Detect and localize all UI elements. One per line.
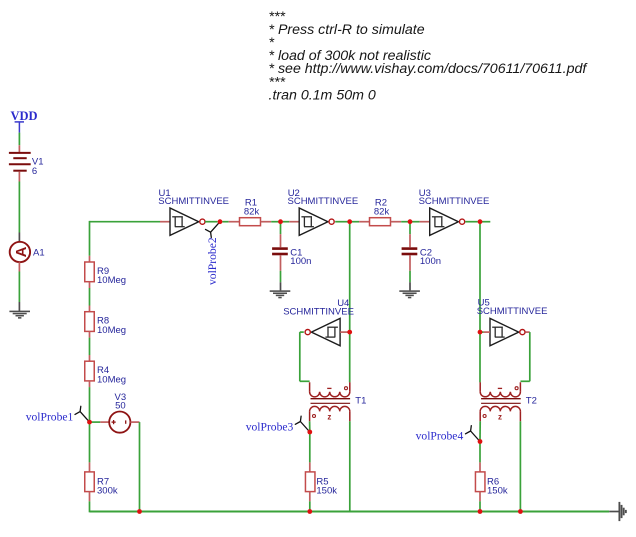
- svg-text:VDD: VDD: [11, 109, 38, 123]
- svg-text:300k: 300k: [97, 486, 118, 497]
- svg-text:150k: 150k: [487, 486, 508, 497]
- svg-text:z: z: [498, 412, 502, 421]
- svg-text:10Meg: 10Meg: [97, 325, 126, 336]
- capacitor C1 value 100n: [272, 247, 288, 250]
- resistor R2 value 82k: [370, 218, 391, 226]
- wire: [480, 331, 484, 333]
- ground: [618, 502, 620, 521]
- node n2 junction: [347, 219, 352, 224]
- node n3 junction: [478, 219, 483, 224]
- wire: [340, 331, 348, 333]
- transformer T2: [479, 382, 481, 392]
- wire node n3: [465, 221, 478, 223]
- ammeter A1: [10, 242, 30, 262]
- probe volProbe4: [466, 426, 481, 442]
- wire bottom rail node 0: [90, 511, 610, 513]
- wire: [89, 338, 91, 355]
- wire: [309, 432, 311, 462]
- node rail junction R6: [478, 509, 483, 514]
- inverter U5 SCHMITTINVEE: [490, 318, 519, 345]
- transformer T1: [309, 382, 311, 392]
- node rail junction V3: [137, 509, 142, 514]
- svg-text:10Meg: 10Meg: [97, 374, 126, 385]
- wire: [479, 442, 481, 463]
- ground: [270, 290, 291, 292]
- wire: [18, 262, 20, 271]
- wire: [409, 255, 411, 270]
- wire node volProbe3: [309, 421, 311, 432]
- wire: [89, 387, 91, 422]
- svg-text:T1: T1: [355, 396, 366, 407]
- wire: [89, 288, 91, 306]
- node U5 input junction: [478, 330, 483, 335]
- wire node in1: [90, 221, 161, 223]
- resistor R8 value 10Meg: [89, 306, 91, 312]
- svg-text:SCHMITTINVEE: SCHMITTINVEE: [477, 306, 548, 317]
- wire: [519, 421, 521, 511]
- inverter U2 SCHMITTINVEE: [299, 208, 328, 235]
- wire: [479, 501, 481, 511]
- voltage source V3 value 50: [109, 412, 130, 433]
- wire: [130, 421, 139, 423]
- wire: [280, 255, 282, 270]
- wire: [18, 172, 20, 182]
- wire: [280, 222, 282, 235]
- ground: [399, 290, 420, 292]
- wire node volProbe2: [205, 221, 217, 223]
- wire: [300, 331, 304, 333]
- wire: [409, 222, 411, 235]
- svg-text:.tran 0.1m 50m 0: .tran 0.1m 50m 0: [269, 87, 376, 103]
- wire: [90, 421, 101, 423]
- svg-text:A: A: [13, 246, 30, 257]
- node volProbe1 junction: [87, 420, 92, 425]
- svg-text:z: z: [327, 412, 331, 421]
- battery V1 value 6: [9, 152, 31, 154]
- resistor R5 value 150k: [309, 462, 311, 472]
- node rail junction T2 right: [518, 509, 523, 514]
- inverter U3 SCHMITTINVEE: [430, 208, 459, 235]
- wire: [18, 133, 20, 146]
- svg-text:100n: 100n: [420, 256, 441, 267]
- svg-text:volProbe4: volProbe4: [416, 430, 464, 443]
- resistor R1 value 82k: [240, 218, 261, 226]
- node C2 junction: [408, 219, 413, 224]
- probe volProbe3: [295, 416, 310, 432]
- resistor R7 value 300k: [89, 462, 91, 472]
- svg-text:A1: A1: [33, 247, 45, 258]
- wire: [309, 501, 311, 511]
- svg-text:100n: 100n: [290, 256, 311, 267]
- svg-text:SCHMITTINVEE: SCHMITTINVEE: [288, 196, 359, 207]
- svg-text:volProbe2: volProbe2: [206, 237, 219, 285]
- svg-text:SCHMITTINVEE: SCHMITTINVEE: [419, 196, 490, 207]
- wire left rail: [89, 221, 91, 256]
- wire: [89, 501, 91, 512]
- svg-text:volProbe1: volProbe1: [26, 411, 74, 424]
- node U4 input junction: [347, 330, 352, 335]
- probe volProbe2: [206, 222, 221, 238]
- node volProbe3 junction: [307, 430, 312, 435]
- svg-text:82k: 82k: [374, 206, 390, 217]
- svg-text:* Press ctrl-R to simulate: * Press ctrl-R to simulate: [269, 22, 425, 38]
- node rail junction R5: [307, 509, 312, 514]
- svg-text:SCHMITTINVEE: SCHMITTINVEE: [158, 196, 229, 207]
- svg-text:150k: 150k: [316, 486, 337, 497]
- probe volProbe1: [75, 406, 90, 422]
- wire: [349, 222, 351, 383]
- svg-text:50: 50: [115, 401, 126, 412]
- node volProbe4 junction: [478, 439, 483, 444]
- svg-text:82k: 82k: [244, 206, 260, 217]
- svg-text:volProbe3: volProbe3: [246, 421, 294, 434]
- resistor R6 value 150k: [479, 462, 481, 472]
- resistor R4 value 10Meg: [89, 355, 91, 361]
- resistor R9 value 10Meg: [89, 256, 91, 262]
- inverter U1 SCHMITTINVEE: [170, 208, 199, 235]
- svg-text:SCHMITTINVEE: SCHMITTINVEE: [283, 306, 354, 317]
- wire node volProbe4: [479, 421, 481, 441]
- wire: [349, 421, 351, 511]
- svg-text:10Meg: 10Meg: [97, 275, 126, 286]
- wire node n2: [335, 221, 347, 223]
- wire: [525, 331, 530, 333]
- svg-text:* see http://www.vishay.com/do: * see http://www.vishay.com/docs/70611/7…: [269, 61, 589, 77]
- wire: [479, 222, 481, 383]
- ground: [9, 311, 30, 313]
- svg-text:T2: T2: [526, 396, 537, 407]
- node volProbe2 junction: [218, 219, 223, 224]
- inverter U4 SCHMITTINVEE: [311, 318, 340, 345]
- capacitor C2 value 100n: [402, 247, 418, 250]
- node C1 junction: [278, 219, 283, 224]
- svg-text:6: 6: [32, 166, 37, 177]
- wire: [89, 422, 91, 462]
